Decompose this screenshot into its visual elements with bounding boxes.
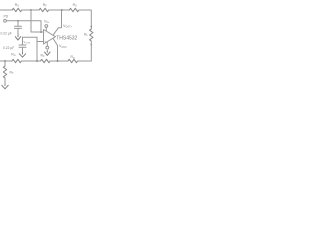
wire to right corner up: [78, 60, 92, 62]
output OUT+ wire: [53, 10, 62, 35]
svg-text:RT: RT: [10, 71, 14, 76]
svg-text:+: +: [44, 40, 46, 44]
svg-text:RG: RG: [15, 3, 19, 8]
resistor RG1 (top): [12, 8, 22, 11]
resistor RF1 (top): [39, 8, 49, 11]
wire: [50, 60, 68, 62]
resistor RO2 (bottom): [68, 59, 78, 62]
wire RT to ground: [4, 78, 6, 84]
svg-text:VOUT+: VOUT+: [63, 24, 73, 29]
node IN- tap: [30, 9, 32, 11]
wire RL bottom to corner: [90, 41, 92, 61]
svg-text:RL: RL: [84, 32, 88, 37]
wire to right edge corner: [79, 10, 91, 29]
RT branch: [4, 61, 6, 66]
supply terminal VS-: [46, 46, 49, 49]
resistor RT (vertical): [3, 66, 6, 78]
capacitor C1 0.22uF: [15, 21, 22, 35]
resistor RL (vertical): [90, 29, 93, 41]
svg-text:VOCM: VOCM: [24, 40, 31, 45]
wire top row left: [0, 9, 12, 11]
ground under RT: [2, 84, 8, 89]
bottom row wire left: [0, 60, 12, 62]
op-amp U1 THS4532: [44, 30, 56, 45]
terminal PD: [4, 19, 7, 22]
node OUT+ tap: [61, 9, 63, 11]
wire feedback vertical to IN-: [31, 10, 44, 32]
capacitor C2 0.22uF: [19, 37, 26, 52]
node IN+ tap: [36, 60, 38, 62]
svg-text:PD: PD: [4, 15, 9, 19]
svg-text:RF: RF: [41, 53, 45, 58]
junction on IN- stub: [40, 31, 42, 33]
vocm wire: [23, 36, 38, 38]
resistor RG2 (bottom): [12, 59, 22, 62]
output OUT- wire: [53, 38, 58, 61]
svg-text:RO: RO: [73, 3, 77, 8]
node RL bottom: [90, 44, 92, 46]
wire PD to amp: [6, 21, 41, 32]
supply terminal VS+: [45, 25, 48, 28]
ground under C1: [15, 35, 21, 40]
svg-text:VS+: VS+: [44, 20, 50, 25]
amp bottom supply wire: [46, 42, 48, 46]
wire: [22, 9, 39, 11]
resistor RF2 (bottom): [41, 59, 51, 62]
resistor RO1 (top): [69, 8, 79, 11]
svg-text:THS4532: THS4532: [56, 35, 77, 41]
vertical to bottom row: [36, 37, 38, 61]
ground under C2: [19, 53, 25, 58]
ground under VS-: [45, 51, 51, 56]
svg-text:RF: RF: [43, 3, 47, 8]
junction cap tap: [17, 20, 19, 22]
node OUT- tap: [57, 60, 59, 62]
svg-text:VOUT-: VOUT-: [59, 44, 68, 49]
svg-text:0.22 µF: 0.22 µF: [1, 32, 12, 36]
svg-text:RG: RG: [11, 52, 15, 57]
node RL top: [90, 26, 92, 28]
wire: [49, 9, 70, 11]
svg-text:0.22 µF: 0.22 µF: [3, 46, 14, 50]
node RT tap: [4, 60, 6, 62]
wire VS+ to amp: [45, 27, 47, 30]
svg-text:-: -: [45, 31, 46, 35]
input IN+ stub: [37, 41, 44, 43]
wire: [22, 60, 41, 62]
svg-text:RO: RO: [71, 55, 75, 60]
